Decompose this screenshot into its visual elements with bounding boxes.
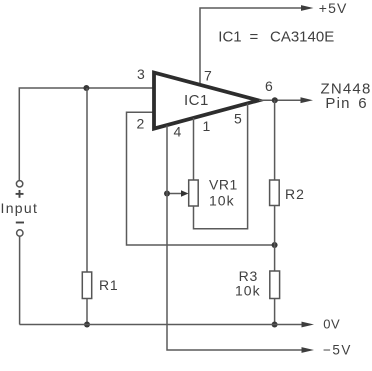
wire: VR1 bottom loop to pin 5 (194, 104, 248, 229)
wire: R2 bottom to node (274, 206, 276, 246)
potentiometer VR1 body (189, 180, 199, 206)
op-amp IC1 (154, 73, 259, 129)
arrowhead -5V (302, 347, 315, 353)
svg-text:IC1: IC1 (184, 92, 209, 109)
VR1 wiper arrow (167, 193, 182, 195)
svg-text:R2: R2 (285, 186, 305, 202)
svg-text:5: 5 (234, 111, 242, 127)
svg-text:7: 7 (204, 68, 212, 84)
wire: node to R3 (274, 245, 276, 271)
wire: R3 to 0V (274, 299, 276, 325)
wire: pin 7 to +5V rail (200, 8, 304, 85)
input terminal + (16, 181, 22, 187)
arrowhead +5V (301, 5, 314, 11)
svg-text:Input: Input (1, 200, 39, 216)
svg-text:6: 6 (358, 95, 368, 112)
input terminal - (17, 230, 23, 236)
label IC1 = CA3140E (218, 29, 334, 46)
svg-text:10k: 10k (209, 193, 235, 209)
svg-text:0V: 0V (323, 317, 340, 332)
svg-text:−5V: −5V (323, 343, 352, 358)
resistor R1 (82, 272, 91, 299)
svg-text:4: 4 (174, 124, 182, 140)
wire: output node to R2 (274, 100, 276, 180)
junction: R1 / 0V rail (84, 322, 90, 328)
wire: input+ rail to pin 3 (19, 88, 152, 180)
junction: wiper / pin 4 line (164, 191, 170, 197)
junction: R3 / 0V rail (272, 322, 278, 328)
wire: R1 branch (86, 88, 88, 272)
svg-text:=: = (250, 29, 259, 46)
arrowhead output (301, 97, 314, 103)
wire: 0V rail (20, 324, 305, 326)
svg-text:3: 3 (137, 66, 145, 82)
svg-text:CA3140E: CA3140E (270, 29, 334, 46)
resistor R3 (270, 271, 280, 299)
svg-text:+5V: +5V (319, 0, 348, 16)
junction: input rail / R1 node (83, 85, 89, 91)
wire: input- down to 0V rail (19, 237, 21, 325)
junction: feedback / R2 / R3 node (272, 242, 278, 248)
junction: output node (272, 97, 278, 103)
svg-text:Pin: Pin (325, 95, 350, 112)
svg-text:R1: R1 (99, 277, 119, 293)
svg-text:VR1: VR1 (209, 177, 238, 193)
svg-text:IC1: IC1 (218, 29, 241, 46)
arrowhead 0V (302, 322, 315, 328)
label minus sign (16, 222, 24, 224)
wire: pin 4 down to -5V rail (167, 126, 304, 351)
label Pin 6 (325, 95, 367, 112)
wire: output pin 6 (259, 99, 303, 101)
wire: pin 1 to VR1 (193, 118, 195, 180)
wire: R1 to 0V (86, 299, 88, 325)
svg-text:6: 6 (265, 78, 273, 94)
svg-text:10k: 10k (235, 283, 261, 299)
svg-text:2: 2 (137, 116, 145, 132)
label plus sign (16, 190, 24, 198)
resistor R2 (270, 180, 280, 206)
wire: pin 2 feedback to R2/R3 node (127, 112, 275, 245)
svg-text:1: 1 (203, 118, 211, 134)
